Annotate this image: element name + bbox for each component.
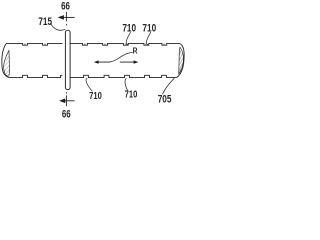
- svg-text:66: 66: [61, 0, 70, 13]
- vertical plate 715: [65, 30, 70, 89]
- leader 710 top-left to notch: [126, 32, 130, 45]
- svg-text:R: R: [133, 46, 138, 56]
- leader 710 top-right to notch: [146, 32, 150, 45]
- dimension double arrow R: [94, 60, 139, 63]
- svg-text:705: 705: [158, 94, 172, 106]
- section centerline top (dash-dot): [65, 12, 67, 26]
- left end cap hatched lune: [4, 51, 10, 77]
- svg-text:710: 710: [122, 22, 136, 34]
- leader 705 to blade bottom edge: [162, 78, 174, 94]
- leader 710 bottom-right to notch: [125, 78, 128, 90]
- notch 710 center ticks (top): [25, 44, 165, 45]
- blade body outline with notches: [2, 43, 184, 77]
- leader 715 to plate top: [50, 23, 65, 30]
- section arrow 66 bottom: [59, 99, 74, 104]
- leader R to double arrow: [110, 52, 133, 61]
- leader 710 bottom-left to notch: [86, 78, 92, 91]
- svg-text:715: 715: [38, 16, 52, 28]
- svg-text:710: 710: [89, 90, 102, 101]
- right end cap hatched lune: [179, 47, 184, 74]
- section centerline bottom (dash-dot): [65, 92, 67, 106]
- section arrow 66 top: [58, 15, 75, 20]
- svg-text:710: 710: [142, 22, 156, 34]
- svg-text:710: 710: [125, 88, 138, 99]
- svg-text:66: 66: [62, 108, 71, 120]
